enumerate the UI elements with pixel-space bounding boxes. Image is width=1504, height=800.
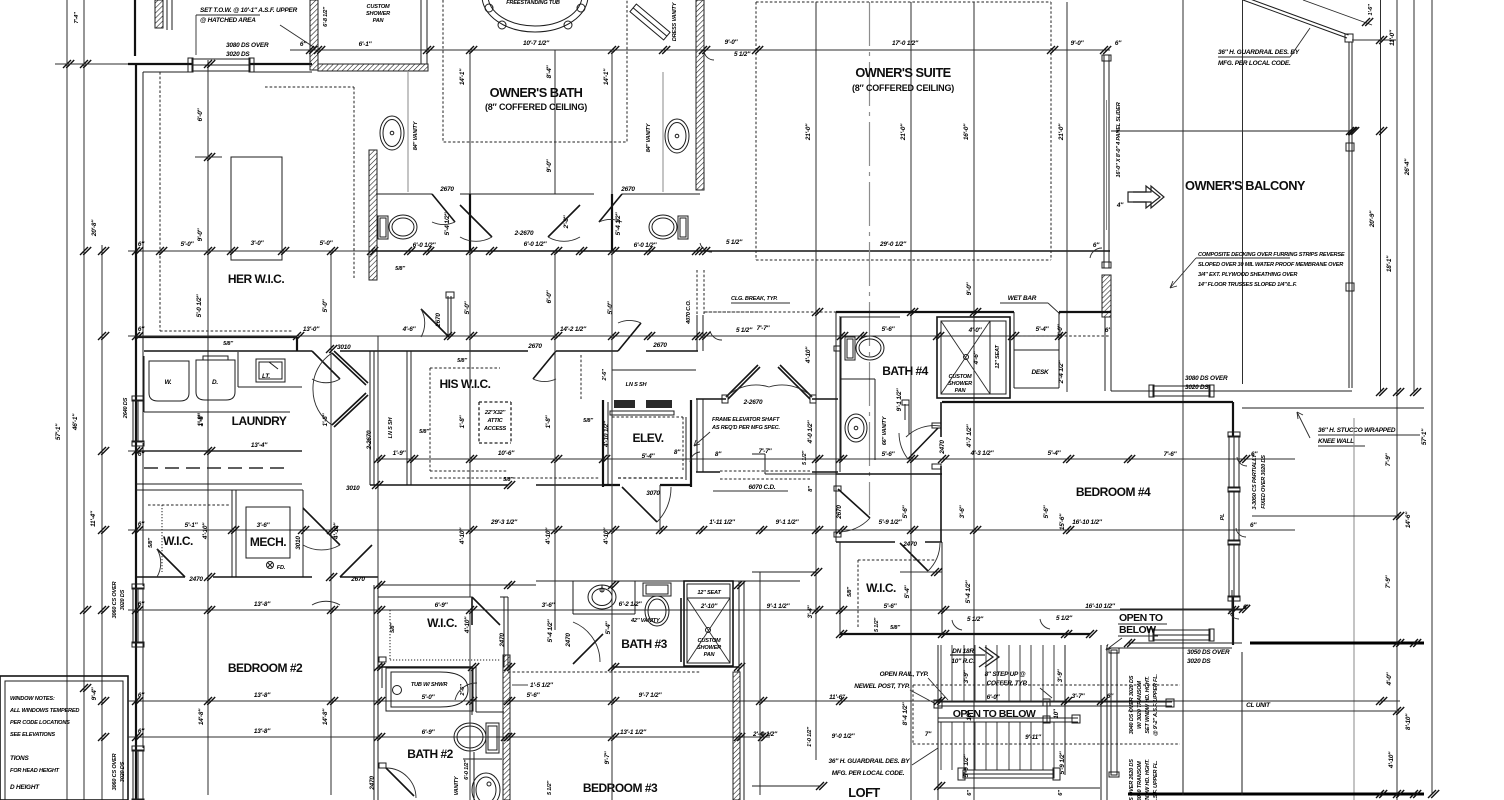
svg-text:FIXED OVER 3020 DS: FIXED OVER 3020 DS (1261, 455, 1267, 509)
grid vertical x470 (469, 50, 471, 251)
svg-text:14′-1″: 14′-1″ (459, 68, 466, 85)
svg-text:ACCESS: ACCESS (483, 426, 507, 432)
svg-text:9′-0″: 9′-0″ (546, 158, 553, 172)
svg-text:4′-10″: 4′-10″ (459, 527, 466, 545)
svg-text:2670: 2670 (620, 186, 635, 193)
bath3 shower (684, 581, 733, 666)
svg-text:8′-4″: 8′-4″ (546, 64, 553, 78)
svg-text:5′-0″: 5′-0″ (422, 694, 436, 701)
svg-text:FREESTANDING TUB: FREESTANDING TUB (506, 0, 560, 6)
svg-text:DS OVER 2620 DS: DS OVER 2620 DS (1129, 759, 1135, 800)
east wall below suite (1104, 317, 1106, 391)
right toilet (678, 216, 688, 239)
ticks y459 extra (372, 455, 515, 489)
guardrail corner post (1345, 34, 1353, 42)
guardrail post mid (1346, 143, 1354, 151)
svg-text:5 1/2″: 5 1/2″ (726, 239, 743, 246)
svg-text:1′-9″: 1′-9″ (393, 450, 407, 457)
svg-text:6′-0″: 6′-0″ (987, 694, 1001, 701)
svg-text:2670: 2670 (350, 576, 365, 583)
dim line y610 (128, 609, 1243, 611)
wall corner x297 (296, 337, 298, 351)
svg-text:MFG. PER LOCAL CODE.: MFG. PER LOCAL CODE. (832, 770, 905, 777)
svg-text:4′-7 1/2″: 4′-7 1/2″ (966, 424, 973, 449)
dim line y50 owner's bath (290, 49, 752, 51)
ticks misc right (1124, 127, 1359, 647)
bath3 sink (588, 585, 616, 609)
laundry counter (238, 352, 302, 387)
svg-text:21′-0″: 21′-0″ (1058, 123, 1065, 141)
vertical x1242 low (1241, 652, 1243, 795)
grid x378 hall (377, 336, 379, 585)
svg-text:8′-4 1/2″: 8′-4 1/2″ (902, 702, 909, 726)
guardrail diagonal (1243, 0, 1347, 38)
guardrail post low (1346, 283, 1354, 291)
balcony north edge y131 (1111, 130, 1352, 132)
balcony south wall (1128, 390, 1352, 392)
svg-text:SLOPED OVER 30 MIL WATER PROOF: SLOPED OVER 30 MIL WATER PROOF MEMBRANE … (1198, 262, 1343, 268)
cl unit line (1128, 710, 1400, 712)
svg-text:3010: 3010 (337, 344, 351, 351)
his wic south wall (370, 484, 612, 486)
svg-text:4″: 4″ (1116, 202, 1124, 209)
svg-text:LN S SH: LN S SH (388, 417, 394, 439)
right vanity counter (662, 72, 664, 192)
svg-text:3010: 3010 (295, 536, 302, 550)
svg-text:9′-0″: 9′-0″ (1071, 40, 1085, 47)
svg-text:TIONS: TIONS (10, 755, 29, 762)
elevator dashed threshold (618, 477, 683, 479)
bath2 toilet (486, 723, 499, 753)
balcony entry arrow (1128, 186, 1160, 208)
svg-text:6′-8 1/2″: 6′-8 1/2″ (323, 7, 329, 27)
svg-text:10″ R.C.: 10″ R.C. (951, 658, 975, 665)
wic-left east wall (231, 490, 233, 577)
svg-text:5 1/2″: 5 1/2″ (734, 51, 751, 58)
svg-text:8′-10″: 8′-10″ (1405, 713, 1412, 730)
svg-text:PAN: PAN (373, 18, 385, 24)
svg-text:5/8″: 5/8″ (419, 429, 429, 435)
hatched shower west wall (310, 0, 318, 70)
bottom right bold wall (1128, 793, 1424, 796)
mech door arc (303, 508, 340, 545)
wic4 walls (840, 542, 942, 634)
svg-text:6′-0″: 6′-0″ (197, 107, 204, 121)
dim line y530 across (128, 529, 1295, 531)
dim line y131 tick (1376, 127, 1387, 135)
svg-text:12″ SEAT: 12″ SEAT (697, 590, 721, 596)
left toilet door leaf (432, 194, 455, 222)
svg-text:13′-8″: 13′-8″ (254, 728, 271, 735)
svg-text:4′-3 1/2″: 4′-3 1/2″ (970, 450, 995, 457)
floor drain (267, 562, 274, 569)
svg-text:14′-8″: 14′-8″ (198, 708, 205, 725)
svg-text:(8″ COFFERED CEILING): (8″ COFFERED CEILING) (485, 102, 587, 112)
svg-text:9′-0″: 9′-0″ (197, 227, 204, 241)
window 3060 west wall mid (133, 588, 143, 643)
bath3 east wall (738, 581, 740, 672)
wall y648 right of stairs (1117, 647, 1232, 649)
svg-text:4′-10″: 4′-10″ (1388, 751, 1395, 769)
svg-text:29′-3 1/2″: 29′-3 1/2″ (490, 519, 518, 526)
hatched wall bath3 east (733, 672, 740, 800)
dashed clg line left of bath4 (705, 311, 836, 313)
svg-text:4′-10″: 4′-10″ (805, 346, 812, 364)
svg-text:5′-0″: 5′-0″ (607, 300, 614, 314)
svg-text:KNEE WALL: KNEE WALL (1318, 438, 1354, 445)
elevator door dark left (614, 400, 635, 408)
dimension line left outer (66, 55, 68, 800)
his wic dashed shelving (430, 368, 508, 471)
svg-text:5′-4″: 5′-4″ (904, 584, 911, 598)
svg-text:3′-0″: 3′-0″ (251, 240, 265, 247)
svg-text:9′-11″: 9′-11″ (1025, 734, 1042, 741)
svg-text:BATH #3: BATH #3 (621, 637, 667, 651)
double closet doors 2-2670 (460, 205, 492, 237)
tub wall y667 (378, 666, 472, 668)
svg-text:OWNER'S SUITE: OWNER'S SUITE (855, 65, 951, 80)
svg-text:6″: 6″ (967, 790, 973, 796)
elevator cab dashed (612, 417, 683, 470)
dn arrow chevron (950, 647, 999, 667)
bath3 west jamb (554, 600, 556, 630)
svg-text:2470: 2470 (369, 776, 376, 791)
svg-text:2670: 2670 (836, 505, 843, 520)
svg-text:PAN: PAN (955, 388, 967, 394)
bath3 north wall (536, 580, 800, 582)
bedroom4 south wall 2 (1128, 642, 1242, 644)
hatched wall below slider (1102, 275, 1111, 317)
wall x1232 short (1231, 590, 1233, 611)
her wic south wall (136, 336, 297, 338)
custom shower bath4 (937, 317, 1010, 398)
toilet room wall x612 (611, 194, 613, 251)
balcony south wall extension (1111, 390, 1128, 392)
svg-text:14′-6″: 14′-6″ (1405, 511, 1412, 528)
svg-text:COFFER, TYP.: COFFER, TYP. (987, 680, 1028, 687)
svg-text:5′-1″: 5′-1″ (185, 522, 199, 529)
centerline suite (869, 2, 871, 515)
svg-text:66″ VANITY: 66″ VANITY (882, 415, 888, 445)
left dim ticks (63, 60, 109, 741)
ticks y585 (374, 581, 745, 589)
svg-text:9′-1 1/2″: 9′-1 1/2″ (776, 519, 800, 526)
bath4 vanity counter (841, 379, 875, 460)
bedroom4 south wall (1120, 608, 1243, 610)
toilet alcove walls (472, 667, 504, 715)
svg-text:WNDW HD. HGHT.: WNDW HD. HGHT. (1145, 759, 1151, 800)
svg-text:SEE ELEVATIONS: SEE ELEVATIONS (10, 732, 55, 738)
svg-text:5 1/2″: 5 1/2″ (874, 618, 880, 632)
svg-text:OWNER'S BALCONY: OWNER'S BALCONY (1185, 178, 1306, 193)
svg-text:3′-6″: 3′-6″ (542, 602, 556, 609)
wall y542 wic4 (836, 541, 942, 543)
svg-text:2470: 2470 (499, 633, 506, 648)
dimension line left mid (83, 55, 85, 800)
svg-text:BEDROOM #4: BEDROOM #4 (1076, 485, 1151, 499)
laundry tub cabinet (256, 359, 285, 382)
svg-text:2′-10″: 2′-10″ (700, 603, 718, 610)
svg-text:6′-0″: 6′-0″ (546, 289, 553, 303)
grid vertical x816 (815, 2, 817, 760)
svg-text:D HEIGHT: D HEIGHT (10, 784, 40, 791)
svg-text:14″ FLOOR TRUSSES SLOPED 1/4″: 14″ FLOOR TRUSSES SLOPED 1/4″/L.F. (1198, 282, 1297, 288)
bath3 south wall (612, 666, 738, 668)
svg-text:5′-4 1/2″: 5′-4 1/2″ (444, 212, 451, 236)
svg-text:57′-1″: 57′-1″ (1421, 428, 1428, 445)
left dim lines top extension (66, 0, 68, 55)
4 panel slider east wall (1103, 55, 1105, 268)
linen 2 closet (612, 370, 696, 400)
svg-text:13′-4″: 13′-4″ (251, 442, 268, 449)
svg-text:2470: 2470 (939, 440, 946, 455)
svg-text:SHOWER: SHOWER (366, 11, 390, 17)
svg-text:5′-4″: 5′-4″ (1048, 450, 1062, 457)
wall below wic2 (378, 584, 536, 586)
left vanity counter (407, 72, 409, 192)
desk alcove (1014, 350, 1059, 388)
svg-text:5′-6″: 5′-6″ (527, 692, 541, 699)
svg-text:11′-4″: 11′-4″ (90, 510, 97, 527)
svg-text:D.: D. (212, 379, 218, 386)
svg-text:6′-1″: 6′-1″ (359, 41, 373, 48)
svg-text:20′-9″: 20′-9″ (1369, 210, 1376, 228)
bath4 sink (845, 414, 867, 442)
svg-text:2670: 2670 (435, 313, 442, 328)
laundry counter dashed (144, 467, 290, 469)
svg-text:CUSTOM: CUSTOM (698, 638, 721, 644)
svg-text:3020 DS: 3020 DS (226, 51, 250, 58)
detail box lower-left corner (0, 676, 128, 800)
svg-text:2-2670: 2-2670 (743, 399, 763, 406)
svg-text:14′-8″: 14′-8″ (322, 708, 329, 725)
vertical x1183 low (1182, 652, 1184, 795)
dress vanity stool (630, 4, 670, 40)
ticks y737 more (501, 733, 769, 741)
grid vertical x612 (611, 50, 613, 251)
hall jog walls (752, 312, 836, 474)
svg-text:4′-0″: 4′-0″ (1386, 671, 1393, 686)
svg-text:3050 DS OVER: 3050 DS OVER (1187, 649, 1230, 656)
svg-text:4′-10″: 4′-10″ (333, 522, 340, 540)
svg-text:BEDROOM #3: BEDROOM #3 (583, 781, 658, 795)
dim line y336 bath4 segment (752, 335, 1059, 337)
svg-text:10′-6″: 10′-6″ (498, 450, 515, 457)
svg-text:W.: W. (165, 379, 172, 386)
bedroom2 east wall (373, 585, 375, 800)
svg-text:LT.: LT. (262, 373, 270, 380)
bath2 vanity counter (463, 758, 502, 760)
svg-text:2′-8″: 2′-8″ (563, 214, 570, 229)
svg-text:5/8″: 5/8″ (148, 538, 154, 548)
svg-text:LOFT: LOFT (848, 785, 880, 800)
freestanding tub (482, 0, 588, 32)
wic4 dashed shelving (858, 560, 936, 628)
dim line y737 (128, 736, 770, 738)
svg-text:LN S SH: LN S SH (626, 382, 648, 388)
stair dashed boundary (913, 685, 1180, 744)
svg-text:NEWEL POST, TYP.: NEWEL POST, TYP. (854, 683, 910, 690)
tick guardrail y131 (1346, 127, 1357, 135)
svg-text:4′-10″: 4′-10″ (202, 522, 209, 540)
svg-text:6″: 6″ (1058, 790, 1064, 796)
right vanity sink (665, 119, 689, 153)
her wic dim verticals (207, 60, 209, 795)
dim verticals right side (1380, 0, 1382, 392)
cased opening 6070 (720, 471, 812, 479)
svg-text:OWNER'S BATH: OWNER'S BATH (490, 85, 583, 100)
svg-text:5′-6″: 5′-6″ (1043, 504, 1050, 518)
svg-text:5′-0″: 5′-0″ (320, 240, 334, 247)
counter south wall (136, 483, 302, 485)
svg-text:3/4″ EXT. PLYWOOD SHEATHING OV: 3/4″ EXT. PLYWOOD SHEATHING OVER (1198, 272, 1297, 278)
suite south wall y312 (836, 311, 1111, 313)
bath4 toilet (845, 337, 855, 360)
svg-text:PL: PL (1220, 513, 1226, 521)
svg-text:5′-6″: 5′-6″ (882, 451, 896, 458)
svg-text:84″ VANITY: 84″ VANITY (413, 120, 419, 150)
svg-text:5′-4″: 5′-4″ (605, 620, 612, 634)
svg-text:9′-7 1/2″: 9′-7 1/2″ (639, 692, 663, 699)
svg-text:SHOWER: SHOWER (948, 381, 972, 387)
svg-text:(8″ COFFERED CEILING): (8″ COFFERED CEILING) (852, 83, 954, 93)
svg-text:10″: 10″ (1053, 708, 1060, 719)
svg-text:MFG. PER LOCAL CODE.: MFG. PER LOCAL CODE. (1218, 60, 1291, 67)
svg-text:2-2670: 2-2670 (514, 230, 534, 237)
hall south wall y572 (752, 571, 815, 573)
svg-text:2670: 2670 (527, 343, 542, 350)
svg-text:22″X32″: 22″X32″ (484, 410, 506, 416)
svg-text:5′-6″: 5′-6″ (882, 326, 896, 333)
svg-text:7′-9″: 7′-9″ (1385, 574, 1392, 588)
dim diagonal along slope (1303, 0, 1372, 25)
svg-text:3020 DS: 3020 DS (1185, 384, 1209, 391)
grid vertical x1067 (1066, 2, 1068, 392)
svg-text:SHOWER: SHOWER (697, 645, 721, 651)
bath2 vanity wall (473, 752, 475, 800)
svg-text:4070 C.O.: 4070 C.O. (686, 300, 692, 325)
dim line y701 (128, 700, 1400, 702)
open to below rails right (1047, 701, 1172, 703)
svg-text:36″ H. GUARDRAIL DES. BY: 36″ H. GUARDRAIL DES. BY (1218, 49, 1300, 56)
loft lower rail (963, 770, 1054, 778)
wic-center north wall (378, 596, 508, 598)
svg-text:13′-1 1/2″: 13′-1 1/2″ (620, 729, 647, 736)
svg-text:6′-2 1/2″: 6′-2 1/2″ (619, 601, 643, 608)
laundry east doors 2-2670 (332, 353, 366, 385)
svg-text:2670: 2670 (439, 186, 454, 193)
svg-text:BATH #2: BATH #2 (407, 747, 453, 761)
loft bottom walls (752, 786, 1100, 788)
svg-text:13′-8″: 13′-8″ (254, 601, 271, 608)
svg-text:5′-4″: 5′-4″ (1036, 326, 1050, 333)
svg-text:5/8″: 5/8″ (457, 358, 467, 364)
svg-text:5 1/2″: 5 1/2″ (1056, 615, 1073, 622)
knee wall line (1242, 407, 1424, 409)
her wic hall door (447, 296, 449, 337)
wall x905 jamb (908, 402, 910, 434)
svg-text:SET WNDW HD. HGHT.: SET WNDW HD. HGHT. (1145, 676, 1151, 734)
svg-text:14′-1″: 14′-1″ (603, 68, 610, 85)
svg-text:1′-6″: 1′-6″ (1368, 4, 1374, 16)
svg-text:9′-0″: 9′-0″ (966, 281, 973, 295)
hatched wall owner's bath west (369, 150, 377, 280)
south wall wic/mech (136, 576, 378, 578)
svg-text:/3020 TRANSOM: /3020 TRANSOM (1137, 761, 1143, 800)
ticks y634 (836, 630, 1097, 638)
svg-text:4′-0 1/2″: 4′-0 1/2″ (807, 420, 814, 445)
svg-text:9′-1 1/2″: 9′-1 1/2″ (896, 388, 903, 412)
bath4 door 2470 (904, 404, 906, 420)
svg-text:AS REQ′D PER MFG SPEC.: AS REQ′D PER MFG SPEC. (711, 425, 780, 431)
left vanity sink (380, 116, 404, 150)
dimension line left inner (101, 245, 103, 800)
svg-text:84″ VANITY: 84″ VANITY (646, 122, 652, 152)
svg-text:FD.: FD. (277, 565, 286, 571)
svg-text:16′-0″: 16′-0″ (963, 123, 970, 140)
svg-text:W.I.C.: W.I.C. (427, 616, 457, 630)
patio edge bold (1250, 642, 1424, 645)
wall x697 corridor (696, 315, 698, 351)
svg-text:15′-6″: 15′-6″ (1059, 513, 1066, 530)
bath3 east wall low (743, 581, 745, 800)
grid x660 bath4 hall (659, 485, 661, 530)
svg-text:HIS W.I.C.: HIS W.I.C. (439, 377, 490, 391)
linen wall x374 (373, 351, 375, 485)
her wic dashed wardrobe line (160, 72, 293, 331)
laundry door arc (312, 379, 340, 383)
owner's bath coffered ceiling dashed (443, 0, 627, 142)
svg-text:1′-8″: 1′-8″ (459, 414, 466, 428)
svg-text:11′-0″: 11′-0″ (1389, 29, 1396, 46)
corridor south wall y350 (144, 350, 698, 352)
dashed segments y336 right (1014, 335, 1110, 337)
svg-text:SET T.O.W. @ 10′-1″ A.S.F. UPP: SET T.O.W. @ 10′-1″ A.S.F. UPPER (200, 7, 298, 14)
ticks y701 more (504, 697, 847, 705)
window bedroom4 south (1153, 630, 1210, 640)
svg-text:DESK: DESK (1032, 369, 1050, 376)
grid vertical x911 (910, 2, 912, 800)
svg-text:8″ STEP UP @: 8″ STEP UP @ (985, 671, 1026, 678)
hall doors diagonal (340, 545, 372, 577)
svg-text:4′-6″: 4′-6″ (402, 326, 417, 333)
mech equipment (246, 507, 290, 558)
stair top wall y634 (840, 633, 1090, 635)
grid vertical x974 (973, 2, 975, 800)
grid vertical x1183 (1182, 0, 1184, 795)
svg-text:5′-0″: 5′-0″ (181, 241, 195, 248)
svg-text:DRESS VANITY: DRESS VANITY (672, 1, 678, 41)
svg-text:1′-5 1/2″: 1′-5 1/2″ (530, 682, 554, 689)
svg-text:3080 DS OVER: 3080 DS OVER (1185, 375, 1228, 382)
loft rail window right (1111, 650, 1117, 775)
svg-text:16′-0″ X 8′-0″ 4 PANEL SLIDER: 16′-0″ X 8′-0″ 4 PANEL SLIDER (1116, 102, 1122, 177)
open to below box (938, 702, 1047, 722)
svg-text:3′-7″: 3′-7″ (1072, 693, 1086, 700)
attic access dashed (479, 402, 511, 443)
wall x836-840 double (839, 316, 841, 472)
exterior wall stub above (134, 0, 136, 56)
svg-text:5/8″: 5/8″ (223, 341, 233, 347)
svg-text:13′-0″: 13′-0″ (303, 326, 320, 333)
svg-text:3′-6″: 3′-6″ (257, 522, 271, 529)
shower glass wall (420, 0, 422, 64)
svg-text:7′-4″: 7′-4″ (74, 12, 80, 24)
svg-text:6′-9″: 6′-9″ (435, 602, 449, 609)
east wall owner's bath hatched (696, 0, 704, 190)
door 3070 hall (326, 345, 337, 353)
svg-text:46′-1″: 46′-1″ (72, 413, 79, 431)
